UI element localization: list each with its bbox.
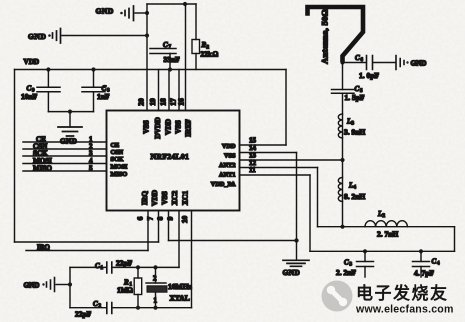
wire pin15 VDD row xyxy=(240,144,287,146)
svg-text:VSS: VSS xyxy=(160,191,169,205)
svg-text:5: 5 xyxy=(89,165,93,173)
wire pin11 drop to bottom rail xyxy=(309,175,311,251)
svg-text:Antenna, 50Ω: Antenna, 50Ω xyxy=(320,9,330,64)
svg-text:VSS: VSS xyxy=(142,120,151,134)
resistor R2 xyxy=(192,4,219,70)
node R1 bottom junction xyxy=(136,306,140,310)
capacitor C2 xyxy=(70,300,192,319)
wire pin18 stub xyxy=(168,70,170,111)
node C7 to VDD rail xyxy=(168,67,172,71)
wire top GND rail xyxy=(147,3,196,5)
wire C9-C8 bottom link xyxy=(48,111,93,113)
wire CSN xyxy=(23,148,107,150)
svg-text:CSN: CSN xyxy=(111,149,124,156)
capacitor C3 xyxy=(336,249,374,277)
capacitor C6 xyxy=(343,54,396,80)
svg-text:C: C xyxy=(93,300,98,308)
svg-text:XC2: XC2 xyxy=(170,191,179,206)
svg-text:XTAL: XTAL xyxy=(170,294,190,303)
wire pin17 stub xyxy=(178,70,180,111)
svg-text:22k: 22k xyxy=(201,51,212,59)
node junction GND3 to loop xyxy=(68,282,72,286)
ground GND #4 bottom-center xyxy=(283,241,310,278)
svg-text:MISO: MISO xyxy=(111,171,128,178)
svg-text:11: 11 xyxy=(249,166,256,174)
resistor R1 xyxy=(117,267,142,307)
wire pin6 IRQ stub xyxy=(147,211,149,251)
capacitor C8 xyxy=(82,67,110,111)
wire pin15 riser to VDD rail xyxy=(285,70,287,146)
capacitor C4 xyxy=(413,249,441,277)
svg-text:18: 18 xyxy=(159,98,168,106)
svg-text:ANT1: ANT1 xyxy=(219,172,235,179)
svg-text:GND: GND xyxy=(96,7,114,16)
node antenna junction xyxy=(340,60,344,64)
wire pin7 to VDD left vertical xyxy=(15,241,159,243)
svg-text:GND: GND xyxy=(283,268,301,277)
ground GND left #2 xyxy=(28,29,61,44)
inductor L2 xyxy=(318,210,455,239)
svg-text:8. 2nH: 8. 2nH xyxy=(344,192,365,201)
svg-text:ANT2: ANT2 xyxy=(219,162,235,169)
wire right edge drop xyxy=(454,227,456,252)
wire pin9 XC2 line xyxy=(178,211,180,268)
wire MISO xyxy=(23,170,107,172)
svg-text:VDD_PA: VDD_PA xyxy=(211,181,236,188)
wire pin12 drop to L2 row xyxy=(317,168,319,227)
node junction pin14 drop xyxy=(294,238,298,242)
antenna (50 ohm monopole) xyxy=(308,7,364,60)
wire pin10 XC1 line xyxy=(191,211,193,308)
wire pin19 stub xyxy=(158,70,160,111)
node XTAL bottom junction xyxy=(153,306,157,310)
node junction GND1 xyxy=(145,11,149,15)
svg-text:1: 1 xyxy=(154,297,158,305)
svg-text:33nF: 33nF xyxy=(164,55,181,64)
svg-text:10nF: 10nF xyxy=(21,92,38,101)
capacitor C1 xyxy=(70,259,179,274)
svg-text:2. 7nH: 2. 7nH xyxy=(377,230,398,239)
svg-text:C: C xyxy=(344,259,349,267)
svg-text:电子发烧友: 电子发烧友 xyxy=(356,283,449,303)
node junction IREF on top rail xyxy=(183,2,187,6)
svg-text:C: C xyxy=(355,54,360,62)
svg-text:VDD: VDD xyxy=(150,190,159,206)
svg-text:VDD: VDD xyxy=(164,119,173,135)
svg-text:16MHz: 16MHz xyxy=(168,282,192,291)
node junction GND2 xyxy=(145,33,149,37)
wire IRQ row xyxy=(26,250,148,252)
svg-text:3. 9nH: 3. 9nH xyxy=(344,128,365,137)
wire VDD rail xyxy=(15,69,287,71)
wire CE xyxy=(23,141,107,143)
wire pin7 VDD stub xyxy=(158,211,160,243)
svg-text:MOSI: MOSI xyxy=(111,164,128,171)
svg-text:19: 19 xyxy=(148,98,157,106)
svg-text:GND: GND xyxy=(28,32,46,41)
svg-text:C: C xyxy=(163,41,168,49)
wire VDD rail left vertical xyxy=(14,70,16,243)
svg-text:VSS: VSS xyxy=(224,153,236,160)
node R1 top junction xyxy=(136,265,140,269)
svg-text:NRF24L01: NRF24L01 xyxy=(151,152,190,161)
wire GND2 to pin20 line xyxy=(62,35,147,37)
ground GND #3 left xyxy=(24,278,71,292)
svg-text:VDD: VDD xyxy=(222,143,236,150)
crystal X1 16MHz XTAL xyxy=(146,267,192,307)
svg-text:www.elecfans.com: www.elecfans.com xyxy=(355,304,454,316)
wire VSS row to GND xyxy=(169,240,297,242)
inductor L3 xyxy=(338,93,365,160)
svg-text:4. 7pF: 4. 7pF xyxy=(414,269,434,278)
capacitor C5 xyxy=(332,63,365,103)
ground under C9/C8 xyxy=(58,112,82,146)
svg-text:20: 20 xyxy=(137,98,146,106)
svg-text:DVDD: DVDD xyxy=(153,117,162,138)
node XTAL top junction xyxy=(153,265,157,269)
svg-text:XC1: XC1 xyxy=(181,191,190,206)
wire SCK xyxy=(23,155,107,157)
node ANT2/L3/L4 junction xyxy=(340,158,344,162)
svg-text:2. 2nF: 2. 2nF xyxy=(336,268,356,277)
wire MOSI xyxy=(23,163,107,165)
node L4 bottom junction xyxy=(340,225,344,229)
svg-text:IRQ: IRQ xyxy=(140,191,149,205)
wire crystal loop left side xyxy=(69,267,71,307)
wire IREF pin16 vertical xyxy=(185,4,187,111)
watermark logo circle xyxy=(322,281,353,312)
wire pin14 drop xyxy=(296,153,298,241)
wire pin13 ANT2 row to matching node xyxy=(240,159,343,161)
svg-text:10: 10 xyxy=(180,216,189,224)
ground GND #5 right of C6 xyxy=(396,56,426,70)
svg-text:22pF: 22pF xyxy=(116,259,133,268)
wire pin14 VSS row xyxy=(240,152,297,154)
svg-text:L: L xyxy=(346,118,351,126)
svg-text:IREF: IREF xyxy=(184,119,193,137)
svg-text:Ω: Ω xyxy=(213,51,219,59)
svg-text:1. 5pF: 1. 5pF xyxy=(345,93,365,102)
svg-text:1nF: 1nF xyxy=(97,92,110,101)
svg-text:VDD: VDD xyxy=(24,58,40,66)
svg-text:L: L xyxy=(348,182,353,190)
op-amp U1 nRF24L01 IC body xyxy=(107,111,240,211)
svg-text:R: R xyxy=(123,279,129,287)
capacitor C7 xyxy=(150,41,180,70)
svg-text:VSS: VSS xyxy=(174,120,183,134)
svg-text:MISO: MISO xyxy=(33,165,52,173)
svg-text:C: C xyxy=(95,262,100,270)
node link junction xyxy=(68,110,72,114)
svg-text:1. 0pF: 1. 0pF xyxy=(359,71,379,80)
svg-text:Ω: Ω xyxy=(127,287,133,295)
capacitor C9 xyxy=(21,67,60,111)
svg-text:L: L xyxy=(377,210,382,218)
svg-text:CE: CE xyxy=(111,142,120,149)
inductor L4 xyxy=(338,160,365,227)
svg-text:16: 16 xyxy=(177,98,186,106)
wire pin8 VSS stub xyxy=(168,211,170,241)
svg-text:C: C xyxy=(355,85,360,93)
svg-text:2: 2 xyxy=(153,275,157,283)
ground GND top-left #1 xyxy=(96,6,134,21)
svg-text:IRQ: IRQ xyxy=(37,245,50,252)
wire VSS/pin20 vertical xyxy=(146,4,148,111)
wire bottom rail xyxy=(310,250,455,252)
svg-text:C: C xyxy=(432,258,437,266)
svg-text:GND: GND xyxy=(24,282,40,290)
svg-text:SCK: SCK xyxy=(111,156,124,163)
svg-text:6: 6 xyxy=(136,216,145,220)
svg-text:22pF: 22pF xyxy=(75,310,92,319)
svg-text:GND: GND xyxy=(411,60,427,68)
svg-text:1M: 1M xyxy=(117,287,128,295)
wire GND1 to node xyxy=(135,12,147,14)
wire pin12 ANT1 row xyxy=(240,167,318,169)
svg-text:9: 9 xyxy=(166,216,175,220)
svg-text:7: 7 xyxy=(146,216,155,220)
wire pin11 VDD_PA row xyxy=(240,174,311,176)
wire antenna to junction xyxy=(342,56,344,63)
svg-text:8: 8 xyxy=(156,216,165,220)
